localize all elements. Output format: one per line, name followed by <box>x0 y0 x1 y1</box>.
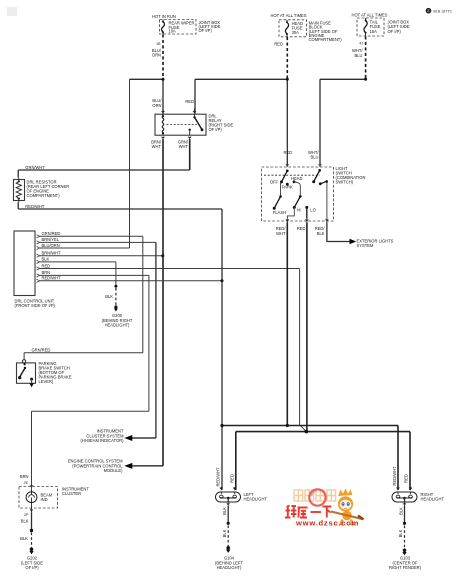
svg-text:WHT: WHT <box>179 144 189 149</box>
svg-text:HOT AT ALL TIMES: HOT AT ALL TIMES <box>271 13 307 18</box>
svg-text:RED: RED <box>229 474 234 483</box>
svg-text:BLK: BLK <box>21 519 29 524</box>
svg-text:BLK: BLK <box>222 507 227 515</box>
svg-text:WHT: WHT <box>276 231 286 236</box>
svg-text:HOT IN RUN: HOT IN RUN <box>152 14 176 19</box>
svg-text:RED/WHT: RED/WHT <box>42 276 62 281</box>
svg-text:BLK: BLK <box>222 529 227 537</box>
svg-text:FLASH: FLASH <box>273 210 286 215</box>
svg-text:www.dzsc.com: www.dzsc.com <box>295 519 359 528</box>
svg-text:RED/WHT: RED/WHT <box>216 467 221 487</box>
svg-text:RED: RED <box>284 150 293 155</box>
svg-text:HEAD: HEAD <box>291 176 302 181</box>
svg-text:HEADLIGHT): HEADLIGHT) <box>217 565 242 570</box>
svg-text:BLU/ORN: BLU/ORN <box>42 243 60 248</box>
svg-text:OF I/P): OF I/P) <box>209 127 223 132</box>
svg-text:BRN/YEL: BRN/YEL <box>42 237 60 242</box>
svg-text:RED: RED <box>185 99 194 104</box>
svg-text:RED/WHT: RED/WHT <box>25 204 45 209</box>
svg-text:GRN/RED: GRN/RED <box>42 231 61 236</box>
svg-text:RIGHT FENDER): RIGHT FENDER) <box>389 565 422 570</box>
svg-text:OFF: OFF <box>270 179 279 184</box>
svg-text:IND: IND <box>41 497 48 502</box>
svg-text:BLK: BLK <box>398 507 403 515</box>
svg-text:2P: 2P <box>24 513 29 517</box>
svg-text:LO: LO <box>310 207 315 212</box>
svg-text:COMPARTMENT): COMPARTMENT) <box>27 193 61 198</box>
svg-text:HEADLIGHT: HEADLIGHT <box>421 497 445 502</box>
svg-text:BRN: BRN <box>20 474 29 479</box>
svg-text:BLK: BLK <box>398 529 403 537</box>
svg-text:OF I/P): OF I/P) <box>25 565 39 570</box>
svg-text:HOT AT ALL TIMES: HOT AT ALL TIMES <box>352 12 388 17</box>
svg-text:BLK: BLK <box>42 257 50 262</box>
svg-text:BLU: BLU <box>355 53 363 58</box>
svg-text:SYSTEM: SYSTEM <box>357 243 374 248</box>
svg-text:RED: RED <box>404 474 409 483</box>
svg-text:ORN: ORN <box>152 53 161 58</box>
svg-text:HEADLIGHT): HEADLIGHT) <box>105 323 130 328</box>
svg-text:1B: 1B <box>156 42 161 46</box>
svg-text:15A: 15A <box>370 29 378 34</box>
svg-text:10A: 10A <box>169 29 177 34</box>
svg-text:BLK: BLK <box>317 231 325 236</box>
svg-text:SWITCH): SWITCH) <box>336 180 354 185</box>
svg-text:BRN/WHT: BRN/WHT <box>42 251 62 256</box>
svg-text:COMPARTMENT): COMPARTMENT) <box>309 37 343 42</box>
svg-text:PARK: PARK <box>282 184 293 189</box>
svg-text:OF I/P): OF I/P) <box>388 29 402 34</box>
svg-text:RED/WHT: RED/WHT <box>392 466 397 486</box>
svg-text:BLK: BLK <box>105 294 113 299</box>
svg-text:RED: RED <box>42 263 51 268</box>
svg-text:B1B 18TTC: B1B 18TTC <box>434 9 453 13</box>
svg-text:4J: 4J <box>359 42 363 46</box>
svg-text:HI: HI <box>297 207 301 212</box>
svg-text:MODULE): MODULE) <box>104 468 124 473</box>
svg-text:GRN/WHT: GRN/WHT <box>25 165 45 170</box>
svg-text:BLK: BLK <box>20 536 28 541</box>
svg-text:OF I/P): OF I/P) <box>199 28 213 33</box>
svg-text:LEVER): LEVER) <box>39 379 54 384</box>
svg-text:GRN/RED: GRN/RED <box>32 348 51 353</box>
svg-text:RED: RED <box>297 226 306 231</box>
svg-text:HEADLIGHT: HEADLIGHT <box>244 497 268 502</box>
svg-text:(FRONT SIDE OF I/P): (FRONT SIDE OF I/P) <box>15 303 56 308</box>
svg-text:WHT: WHT <box>152 144 162 149</box>
svg-text:RED: RED <box>274 41 283 46</box>
svg-text:BLU: BLU <box>311 155 319 160</box>
svg-text:2E: 2E <box>24 481 29 485</box>
svg-text:ORN: ORN <box>152 103 161 108</box>
svg-text:(HI-BEAM INDICATOR): (HI-BEAM INDICATOR) <box>80 438 124 443</box>
svg-text:CLUSTER: CLUSTER <box>62 491 81 496</box>
svg-text:BRN: BRN <box>42 270 51 275</box>
svg-text:30A: 30A <box>292 30 300 35</box>
